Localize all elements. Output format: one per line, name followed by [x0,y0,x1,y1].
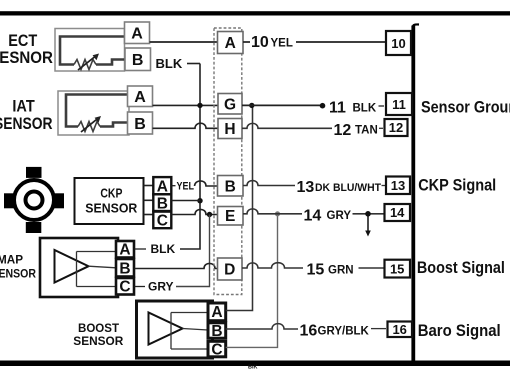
wire 15 GRN (hops over bus2 and GRY riser) [242,262,385,279]
svg-text:BLK: BLK [156,56,183,71]
GRY riser from MAP-C up to E wire [176,215,210,287]
PCM pin 12 [385,119,408,136]
wire 16 GRY/BLK (hop over GRY riser) [226,323,386,340]
svg-text:12: 12 [334,122,352,139]
svg-text:15: 15 [307,262,325,279]
svg-text:14: 14 [304,207,322,224]
svg-text:B: B [157,195,168,212]
svg-text:SESNOR: SESNOR [0,48,53,67]
svg-text:GRY: GRY [148,280,174,294]
svg-text:SENSOR: SENSOR [0,114,53,133]
svg-text:11: 11 [392,97,406,112]
ECT thermistor RT1 zigzag [74,60,96,70]
IAT sensor label [0,96,53,133]
PCM pin 16 [388,322,413,338]
MAP pin C [116,278,134,296]
BOOST pin B [208,323,226,340]
CKP reluctor wheel symbol [4,167,64,233]
wire CKP-B to ground bus [172,200,201,202]
svg-text:10: 10 [251,34,269,51]
svg-text:IAT: IAT [12,96,35,115]
MAP pin B [116,259,134,277]
svg-text:MAP: MAP [0,255,23,267]
wire 12 TAN (hop over bus2) [242,122,383,139]
svg-text:A: A [157,179,168,196]
svg-text:BLK: BLK [151,242,176,256]
svg-text:CKP Signal: CKP Signal [418,176,496,195]
connector C100 dashed outline [214,28,242,295]
svg-text:16: 16 [300,323,318,340]
BOOST internal fork wires [171,313,208,350]
wire MAP-B to connector D (hop over GRY riser) [135,263,218,268]
top border bar [0,11,510,15]
MAP internal fork wires [77,252,117,287]
wire 13 DK BLU/WHT (hop over bus2) [243,179,385,196]
ECT thermistor loop wire [60,37,126,65]
svg-text:16: 16 [392,322,406,337]
svg-text:A: A [119,242,130,259]
MAP sensor box [40,238,118,297]
svg-text:B: B [119,260,130,277]
GRY label (MAP-C wire) [135,280,174,294]
junction dot bus/IAT-A [197,103,202,108]
PCM edge line [411,24,419,366]
svg-text:TAN: TAN [355,125,378,137]
wire CKP-C to connector E (hop over ground bus) [172,209,218,214]
svg-text:E: E [225,208,235,225]
wire 10 YEL [243,34,386,51]
svg-text:Sensor Ground: Sensor Ground [421,98,510,117]
svg-text:C: C [211,341,222,358]
svg-text:YEL: YEL [271,37,293,49]
svg-text:H: H [224,121,235,138]
PCM pin 11 [386,93,412,115]
PCM pin 15 [385,260,411,278]
svg-text:A: A [131,26,143,43]
ECT thermistor arrow [78,54,99,71]
svg-text:YEL: YEL [177,181,195,193]
connector pin E [218,207,244,226]
connector pin B [218,176,244,197]
BOOST pin C [208,341,226,358]
ECT sensor label [0,31,53,67]
wire 11 BLK (sensor ground) [242,99,384,116]
svg-text:GRN: GRN [328,264,354,276]
ECT pin B [125,48,151,71]
svg-text:B: B [211,323,222,340]
svg-text:12: 12 [389,120,403,135]
CKP sensor box [75,178,144,224]
svg-text:13: 13 [391,178,405,193]
svg-text:14: 14 [390,205,405,220]
wire CKP-A to connector B (hop over ground bus) [195,181,218,186]
PCM pin 13 [386,177,410,195]
IAT pin A [128,86,153,107]
YEL label (CKP-A wire) [172,181,195,193]
CKP pin C [153,212,171,230]
svg-text:BLK: BLK [353,102,377,114]
svg-text:CKP: CKP [100,186,122,201]
svg-text:B: B [225,178,236,195]
IAT thermistor loop wire [66,95,128,127]
junction dot CKP-C / MAP-C GRY riser [207,212,212,217]
ECT sensor body box [55,29,125,72]
svg-text:A: A [225,35,236,52]
svg-text:A: A [211,304,222,321]
CKP pin B [153,194,171,212]
GRY riser (x=277.5) from wire14 down to Boost-C [226,214,278,347]
connector pin H [218,119,242,139]
CKP pin A [153,177,171,195]
BOOST sensor box [137,301,213,358]
PCM pin 10 [386,31,411,55]
svg-text:B: B [132,52,144,69]
junction dot bus/CKP-B [197,198,202,203]
IAT thermistor RT2 zigzag [78,122,100,132]
svg-text:GRY: GRY [327,210,352,222]
svg-text:DK BLU/WHT: DK BLU/WHT [315,182,381,194]
svg-text:10: 10 [391,36,405,51]
ECT pin A [125,22,150,44]
PCM pin 14 [385,204,411,221]
svg-text:GRY/BLK: GRY/BLK [318,325,370,337]
ground bus BLK (x=200) [180,64,200,250]
svg-text:11: 11 [329,99,346,116]
svg-text:15: 15 [390,261,404,276]
BOOST sensor label [73,321,123,348]
svg-text:G: G [224,96,236,113]
svg-text:SENSOR: SENSOR [0,269,37,281]
svg-text:B: B [134,116,146,133]
ground bus 2 (x=252) from G junction down to Boost-A [226,105,253,310]
connector pin A [218,32,244,54]
svg-text:BIK: BIK [248,365,258,371]
MAP amplifier triangle [55,250,89,283]
BLK label (MAP-A wire) [135,242,176,256]
IAT sensor body box [58,91,129,135]
IAT thermistor arrow [81,116,101,132]
svg-text:SENSOR: SENSOR [85,201,138,216]
wire BLK to ground bus [187,63,200,65]
junction dot GRY riser / wire 14 (gray) [275,211,280,216]
svg-text:SENSOR: SENSOR [73,334,123,348]
junction dot bus2 top [249,103,254,108]
wire ECT-A to connector A [150,41,218,43]
wire 14 GRY (hop over bus2, gray dot, arrow) [243,207,385,236]
CKP stub wires to pins [144,186,154,215]
connector pin D [218,258,243,280]
svg-text:ECT: ECT [8,31,38,50]
svg-text:BOOST: BOOST [78,321,120,335]
BOOST pin A [208,303,226,321]
svg-text:A: A [134,89,146,106]
MAP sensor label [0,255,37,281]
connector pin G [218,94,242,115]
svg-text:13: 13 [297,179,315,196]
IAT pin B [128,112,153,134]
wire IAT-B to connector H (hop over ground bus) [153,123,219,128]
BOOST amplifier triangle [149,313,183,345]
svg-text:C: C [119,279,130,296]
wire IAT-A to connector G [153,104,219,106]
svg-text:Boost Signal: Boost Signal [417,258,505,277]
bottom border bar [0,361,510,367]
svg-text:D: D [224,262,235,279]
svg-text:C: C [157,212,168,229]
svg-text:Baro Signal: Baro Signal [418,321,501,340]
MAP pin A [116,241,134,259]
